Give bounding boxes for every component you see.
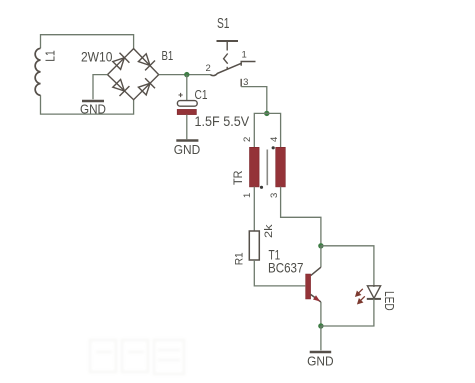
wire: TR pin1 down to R1: [253, 187, 255, 231]
wire: TR pin3 to collector node: [281, 187, 321, 246]
svg-text:S1: S1: [217, 16, 230, 32]
diode D-topright of B1: [138, 54, 155, 71]
node junction above transformer: [264, 111, 269, 116]
svg-text:GND: GND: [307, 354, 334, 369]
svg-text:2: 2: [206, 63, 211, 74]
svg-text:3: 3: [269, 193, 280, 198]
ground GND (bottom): [307, 352, 334, 369]
ground GND (bridge): [80, 101, 106, 117]
svg-text:BC637: BC637: [268, 260, 304, 276]
wire: collector node down: [320, 246, 322, 267]
switch S1: [211, 41, 256, 87]
svg-text:LED: LED: [382, 291, 396, 311]
svg-text:C1: C1: [195, 87, 208, 102]
svg-text:TR: TR: [233, 171, 245, 186]
transformer TR: [250, 146, 286, 189]
wire: top loop from L1 to bridge top: [41, 35, 134, 49]
ground GND (C1): [174, 141, 201, 158]
svg-text:2: 2: [242, 137, 253, 142]
wire: collector node to LED top: [321, 246, 374, 287]
svg-text:R1: R1: [234, 252, 246, 265]
watermark: [90, 340, 184, 374]
LED D1: [356, 286, 381, 304]
inductor L1: [35, 48, 40, 95]
svg-text:2k: 2k: [263, 224, 275, 238]
svg-text:1: 1: [242, 50, 247, 61]
svg-text:1.5F 5.5V: 1.5F 5.5V: [195, 113, 250, 129]
svg-text:2W10: 2W10: [81, 48, 113, 64]
diode D-bottomright of B1: [138, 78, 155, 95]
svg-text:GND: GND: [174, 142, 201, 157]
wire: LED cathode down to bottom rail: [321, 299, 374, 326]
wire: ground node to GND: [320, 326, 322, 350]
svg-text:4: 4: [269, 137, 280, 142]
svg-text:L1: L1: [43, 50, 58, 62]
node junction at C1 tap: [184, 72, 189, 77]
wire: switch pin3 to transformer node: [241, 87, 267, 114]
svg-text:1: 1: [242, 193, 253, 198]
wire: emitter down to ground node: [320, 302, 322, 326]
svg-text:B1: B1: [162, 48, 174, 63]
bridge rectifier B1 outline: [108, 49, 159, 100]
wire: bridge output to switch pin2: [159, 74, 211, 76]
wire: C1 to ground: [186, 115, 188, 140]
wire: node to winding tops: [254, 113, 280, 148]
wire: junction down to C1: [186, 75, 188, 101]
resistor R1: [249, 231, 259, 260]
node collector junction: [318, 243, 323, 248]
wire: bottom loop from L1 to bridge bottom: [41, 95, 134, 114]
transistor T1: [306, 267, 321, 302]
wire: bridge left corner to ground: [93, 75, 108, 100]
capacitor C1: [177, 93, 197, 115]
node emitter junction: [318, 323, 323, 328]
diode D-topleft of B1: [113, 53, 130, 70]
svg-text:GND: GND: [80, 102, 106, 117]
wire: R1 to transistor base: [254, 260, 305, 286]
diode D-bottomleft of B1: [113, 79, 130, 96]
